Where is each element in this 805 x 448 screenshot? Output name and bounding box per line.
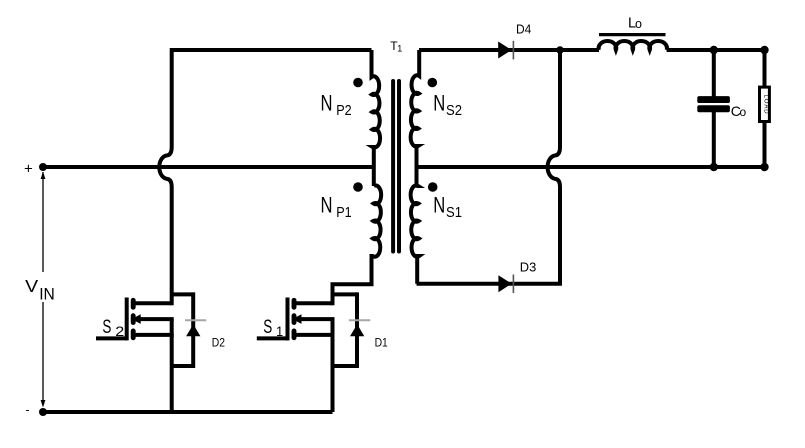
arrow of S2 body bbox=[132, 314, 141, 324]
wire D1 branch vertical bbox=[355, 292, 359, 368]
svg-text:S1: S1 bbox=[446, 204, 462, 221]
svg-text:N: N bbox=[321, 90, 333, 115]
gate lead wire bbox=[257, 336, 288, 340]
transformer T1 secondary winding NS1 bbox=[411, 185, 420, 283]
wire S1 drain up to NP1 bottom bbox=[333, 254, 372, 305]
polarity dot NS2 bbox=[428, 78, 438, 88]
node Co bottom junction bbox=[710, 163, 718, 171]
svg-text:1: 1 bbox=[397, 44, 402, 54]
svg-text:V: V bbox=[25, 276, 38, 296]
wire top output rail: Lo to load corner bbox=[667, 50, 765, 87]
svg-text:D2: D2 bbox=[212, 335, 225, 349]
arrow of S1 body bbox=[292, 314, 301, 324]
source stub bbox=[294, 333, 335, 337]
wire D2 branch vertical bbox=[191, 292, 195, 368]
transformer T1 secondary winding NS2 bbox=[411, 50, 420, 186]
svg-text:P2: P2 bbox=[336, 102, 351, 119]
transformer T1 primary winding NP1 bbox=[372, 185, 382, 284]
wire Co bottom lead bbox=[712, 111, 716, 167]
wire bottom negative rail bbox=[43, 410, 333, 414]
node input negative bbox=[39, 408, 47, 416]
svg-text:S: S bbox=[102, 316, 111, 338]
diode D2 (body diode of S2) bbox=[186, 324, 200, 336]
drain stub bbox=[294, 301, 333, 305]
svg-text:IN: IN bbox=[39, 285, 55, 304]
diode D3 bbox=[498, 275, 511, 292]
node input positive bbox=[39, 163, 47, 171]
wire S1 source down to negative rail bbox=[331, 319, 335, 412]
inductor Lo core bar bbox=[599, 33, 666, 36]
wire S2 source to D2 bottom branch bbox=[172, 364, 194, 368]
VIN measurement line with arrows bbox=[42, 172, 44, 405]
svg-text:2: 2 bbox=[115, 324, 124, 339]
transformer T1 primary winding NP2 bbox=[372, 50, 381, 186]
source stub bbox=[133, 333, 174, 337]
transistor S2 bbox=[96, 298, 174, 341]
body stub with arrow bbox=[140, 317, 174, 321]
wire load bottom lead bbox=[763, 122, 767, 168]
svg-text:-: - bbox=[26, 403, 30, 417]
wire secondary rectifier leg: D4 node down to hop bbox=[558, 50, 562, 147]
node D4 cathode junction bbox=[556, 46, 564, 54]
svg-text:P1: P1 bbox=[336, 204, 351, 221]
node load bottom junction bbox=[760, 163, 768, 171]
svg-text:LOAD: LOAD bbox=[763, 95, 769, 115]
svg-text:D3: D3 bbox=[520, 259, 537, 274]
polarity dot NS1 bbox=[428, 182, 438, 192]
wire S2 source down to negative rail bbox=[170, 319, 174, 412]
transformer T1 core bbox=[393, 81, 399, 252]
gate bar bbox=[286, 298, 290, 341]
body stub with arrow bbox=[300, 317, 334, 321]
gate lead wire bbox=[96, 336, 127, 340]
svg-text:1: 1 bbox=[276, 324, 283, 339]
svg-text:o: o bbox=[740, 105, 747, 119]
wire primary leg below hop to S2 drain bbox=[170, 187, 174, 305]
wire S2 drain to D2 anode-top branch bbox=[172, 292, 194, 296]
cathode bar of D4 bbox=[512, 41, 514, 60]
node Co top junction bbox=[710, 46, 718, 54]
wire hop of primary leg over mid rail bbox=[159, 147, 171, 187]
capacitor Co plates bbox=[697, 96, 730, 112]
svg-text:N: N bbox=[321, 192, 333, 217]
svg-text:N: N bbox=[433, 90, 445, 115]
polarity dot NP1 bbox=[353, 182, 363, 192]
cathode bar of D2 bbox=[185, 319, 206, 321]
cathode bar of D3 bbox=[512, 275, 514, 294]
wire mid rail right (secondary center tap to output return) bbox=[417, 165, 765, 169]
svg-text:D1: D1 bbox=[375, 335, 388, 349]
wire secondary leg below hop, down and left to D3 / NS1 bottom bbox=[417, 187, 561, 284]
drain stub bbox=[133, 301, 172, 305]
svg-text:S: S bbox=[263, 316, 272, 338]
wire Co top lead bbox=[712, 50, 716, 97]
svg-text:o: o bbox=[635, 17, 642, 31]
wire top secondary rail: NS2 top through D4 to Lo bbox=[419, 48, 599, 52]
wire hop of secondary leg over mid rail bbox=[548, 147, 560, 187]
wire S1 drain to D1 top branch bbox=[333, 292, 358, 296]
cathode bar of D1 bbox=[349, 319, 370, 321]
diode D4 bbox=[498, 42, 511, 59]
polarity dot NP2 bbox=[353, 78, 363, 88]
wire mid rail left (+ input to primary center tap) bbox=[43, 165, 375, 169]
svg-text:N: N bbox=[433, 192, 445, 217]
diode D1 (body diode of S1) bbox=[350, 324, 364, 336]
svg-text:S2: S2 bbox=[446, 102, 462, 119]
node load top junction bbox=[760, 46, 768, 54]
inductor Lo winding bbox=[599, 41, 667, 50]
resistor load bbox=[760, 87, 770, 121]
svg-text:D4: D4 bbox=[516, 22, 531, 37]
wire top-left loop: top rail and left vertical above hop bbox=[172, 50, 372, 147]
gate bar bbox=[125, 298, 129, 341]
channel segments bbox=[131, 300, 136, 338]
wire S1 source to D1 bottom branch bbox=[333, 364, 358, 368]
svg-text:+: + bbox=[24, 161, 33, 178]
channel segments bbox=[292, 300, 297, 338]
transistor S1 bbox=[257, 298, 335, 341]
